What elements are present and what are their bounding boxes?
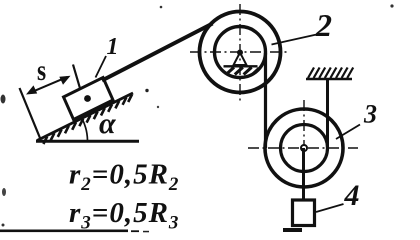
bottom rule	[0, 230, 128, 233]
rope block to pulley 2	[102, 24, 213, 81]
pulley 3 inner rim	[281, 125, 328, 172]
svg-text:3: 3	[363, 100, 377, 129]
svg-text:1: 1	[107, 34, 119, 60]
pulley 2 pivot triangle	[234, 53, 247, 66]
block 1	[64, 78, 114, 120]
weight 4	[293, 200, 315, 226]
leader line 2	[272, 35, 317, 45]
bottom ink dash	[283, 228, 302, 232]
rope ceiling to pulley 3	[326, 79, 329, 148]
rope pulley 2 to pulley 3	[264, 53, 267, 148]
leader line 3	[336, 125, 360, 140]
incline surface	[37, 93, 133, 141]
svg-text:α: α	[99, 107, 116, 140]
pulley 3 outer rim	[265, 109, 343, 187]
s arrow	[29, 77, 67, 93]
leader line 4	[316, 204, 344, 212]
pulley 3 axis dash-dot horizontal	[248, 147, 358, 149]
svg-text:2: 2	[315, 7, 332, 43]
svg-text:4: 4	[344, 179, 360, 212]
rope pulley 3 to weight 4	[302, 148, 305, 202]
pivot apex dot	[237, 50, 243, 56]
ground line	[36, 140, 139, 143]
ceiling line	[306, 78, 352, 81]
specks	[160, 6, 163, 9]
incline hatching	[43, 95, 132, 145]
leader line 1	[96, 56, 107, 78]
left tick of s measure	[20, 88, 41, 138]
pulley 3 axis dash-dot vertical	[303, 100, 305, 192]
right tick of s measure	[73, 65, 81, 91]
ceiling hatching	[308, 68, 353, 79]
pulley 2 axis dash-dot vertical	[239, 4, 241, 104]
pulley 2 axis dash-dot horizontal	[190, 51, 289, 53]
pivot ground line	[224, 65, 258, 67]
pulley 2 inner rim	[215, 27, 266, 78]
pulley 2 outer rim	[200, 12, 281, 93]
block pivot dot	[84, 95, 91, 102]
pulley 3 axle	[301, 145, 307, 151]
angle arc	[82, 119, 88, 141]
pivot hatching	[226, 67, 259, 74]
svg-text:s: s	[37, 53, 46, 86]
